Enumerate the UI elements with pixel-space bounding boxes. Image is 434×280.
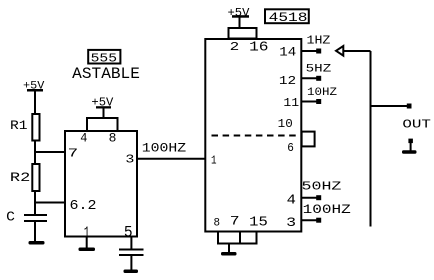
svg-text:8: 8 — [214, 217, 221, 230]
power +5V (555 supply) — [91, 96, 113, 118]
connector loop 555 pins 4-8 — [87, 118, 118, 131]
ground (OUT terminal) — [402, 139, 417, 154]
wire tap pin 11, node 10HZ — [301, 99, 322, 104]
svg-text:5HZ: 5HZ — [306, 63, 332, 76]
wire tap pin 4, node 50HZ — [301, 195, 322, 200]
jumper loop pins 10-6 — [302, 132, 315, 147]
svg-text:100HZ: 100HZ — [142, 141, 187, 156]
ground (4518 bottom) — [221, 244, 237, 256]
wire tap pin 3, node 100HZ — [301, 218, 322, 223]
svg-text:4: 4 — [287, 193, 296, 208]
wire tap pin 14, node 1HZ — [301, 49, 322, 54]
svg-text:1HZ: 1HZ — [307, 33, 331, 47]
IC U1 555 timer body — [65, 131, 137, 237]
connector loop 4518 pins 2-16 — [229, 28, 257, 39]
svg-text:16: 16 — [249, 40, 268, 55]
svg-text:15: 15 — [249, 215, 268, 230]
label box 4518 — [265, 9, 309, 23]
svg-text:4518: 4518 — [269, 10, 308, 25]
svg-text:6: 6 — [287, 141, 294, 155]
wire tap pin 12, node 5HZ — [301, 76, 322, 81]
wire selector bus — [370, 51, 372, 227]
IC U2 4518 counter body — [205, 39, 301, 232]
svg-text:8: 8 — [109, 132, 117, 146]
power +5V (4518 supply) — [228, 6, 251, 28]
svg-text:OUT: OUT — [402, 118, 431, 132]
svg-text:3: 3 — [125, 153, 134, 167]
connector loop pins 8-7-15 — [218, 232, 257, 244]
svg-text:7: 7 — [68, 147, 79, 161]
svg-text:14: 14 — [279, 44, 296, 59]
svg-text:6.2: 6.2 — [70, 198, 97, 214]
wire junction to 555 pins 6,2 — [35, 202, 66, 204]
svg-text:C: C — [6, 211, 15, 226]
ground (555 pin 1) — [79, 237, 96, 252]
resistor R2 — [32, 164, 39, 191]
svg-text:10: 10 — [278, 117, 293, 131]
svg-text:ASTABLE: ASTABLE — [72, 65, 140, 83]
selector wiper arrow — [336, 46, 371, 56]
wire OUT — [371, 104, 412, 109]
svg-text:555: 555 — [91, 51, 117, 65]
svg-text:2: 2 — [230, 40, 240, 54]
ground (below C2) — [124, 270, 139, 274]
svg-text:3: 3 — [286, 215, 296, 230]
svg-text:4: 4 — [80, 132, 87, 146]
svg-text:1: 1 — [211, 154, 217, 168]
capacitor C — [24, 214, 47, 241]
svg-text:R1: R1 — [10, 118, 28, 133]
svg-text:10HZ: 10HZ — [307, 86, 337, 99]
svg-text:7: 7 — [230, 214, 240, 229]
ground (below C) — [29, 241, 45, 245]
svg-text:100HZ: 100HZ — [303, 203, 352, 217]
svg-text:11: 11 — [283, 96, 299, 110]
resistor R1 — [32, 114, 39, 141]
wire junction to 555 pin 7 — [35, 151, 66, 153]
wire net 100HZ (555 pin 3 to 4518 pin 1) — [136, 158, 205, 160]
dashed divider between counter halves — [212, 135, 299, 137]
capacitor C2 (555 pin 5) — [119, 237, 144, 270]
svg-text:12: 12 — [279, 74, 296, 88]
power +5V (left rail supply) — [23, 80, 44, 114]
wire R2 bottom to C top — [34, 191, 36, 214]
svg-text:R2: R2 — [10, 170, 30, 185]
wire R1 bottom to R2 top — [34, 141, 36, 165]
label box 555 — [88, 50, 120, 64]
svg-text:50HZ: 50HZ — [302, 180, 342, 194]
